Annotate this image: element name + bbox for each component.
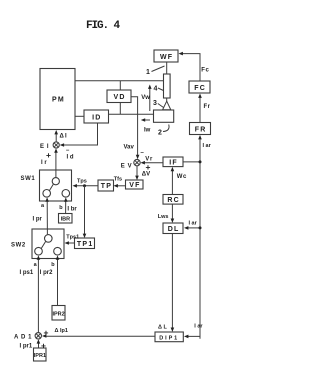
wire TP to SW1 (Tps) bbox=[73, 184, 99, 188]
svg-text:ΔV: ΔV bbox=[142, 172, 150, 178]
svg-text:DIP1: DIP1 bbox=[159, 335, 179, 341]
svg-text:I br: I br bbox=[67, 206, 77, 212]
label I ar (bottom) bbox=[194, 324, 203, 330]
svg-text:+: + bbox=[44, 328, 49, 338]
svg-text:SW1: SW1 bbox=[21, 176, 36, 182]
label delta I bbox=[60, 134, 68, 140]
label b (SW2) bbox=[51, 262, 55, 268]
wire RC to DL (Lws) bbox=[171, 204, 175, 223]
block FC bbox=[189, 81, 210, 93]
switch SW1 bbox=[40, 170, 72, 201]
wire IBR to SW1 contact b (Ibr) bbox=[64, 197, 68, 213]
wire WF to element4 bbox=[166, 62, 168, 74]
svg-text:FC: FC bbox=[194, 85, 206, 92]
svg-text:PM: PM bbox=[52, 97, 65, 104]
svg-text:Δ L: Δ L bbox=[158, 325, 167, 331]
svg-text:DL: DL bbox=[168, 226, 180, 233]
svg-text:VF: VF bbox=[129, 182, 140, 189]
pointer line 4 bbox=[158, 88, 163, 91]
title FIG. 4 bbox=[86, 20, 121, 32]
label Vw bbox=[141, 95, 150, 101]
svg-text:I pr: I pr bbox=[33, 216, 43, 222]
wire Iar bus to FR and DIP1 bbox=[184, 135, 202, 339]
block DL bbox=[163, 223, 183, 234]
svg-text:TP: TP bbox=[101, 183, 112, 190]
svg-text:I pr1: I pr1 bbox=[20, 344, 33, 350]
wire DIP1 to AD1 (delta Ip1) bbox=[42, 334, 155, 338]
label E V bbox=[121, 163, 132, 169]
label 3 bbox=[153, 100, 157, 107]
svg-text:+: + bbox=[46, 150, 51, 160]
label E I bbox=[40, 144, 49, 150]
block ID bbox=[84, 110, 109, 123]
svg-text:Δ Ip1: Δ Ip1 bbox=[55, 328, 68, 334]
element 4 (nozzle heater column) bbox=[164, 74, 171, 98]
wire EV to VF (delta V) bbox=[135, 166, 139, 180]
svg-text:FIG. 4: FIG. 4 bbox=[86, 20, 121, 32]
label 1 bbox=[146, 69, 150, 76]
svg-text:I r: I r bbox=[41, 160, 47, 166]
wire DL to DIP1 (delta L) bbox=[171, 234, 175, 332]
nozzle 3 (triangle) bbox=[163, 101, 171, 110]
wire pump stub Iw arrow bbox=[141, 118, 150, 122]
svg-text:Tps: Tps bbox=[77, 179, 87, 185]
block IPR2 bbox=[52, 306, 65, 321]
svg-text:Tfs: Tfs bbox=[114, 176, 122, 182]
label I d bbox=[67, 154, 74, 160]
label b (SW1) bbox=[59, 205, 63, 211]
label a (SW1) bbox=[41, 203, 45, 209]
wire VD to EV (Vav line) bbox=[131, 97, 139, 160]
wire VF to TP bbox=[114, 184, 126, 188]
svg-text:I ar: I ar bbox=[194, 324, 203, 330]
svg-text:A D 1: A D 1 bbox=[14, 335, 32, 341]
wire IPR1 to AD1 (Ipr1) bbox=[37, 339, 41, 348]
junction IF-bus bbox=[199, 160, 202, 163]
summing junction EV bbox=[134, 159, 140, 165]
wire element4 to nozzle bbox=[166, 98, 168, 102]
pointer line 1 bbox=[152, 66, 165, 72]
svg-text:2: 2 bbox=[158, 130, 162, 137]
label I ar (top) bbox=[203, 143, 212, 149]
svg-text:I d: I d bbox=[67, 154, 74, 160]
block IF bbox=[163, 157, 183, 167]
label Tfs bbox=[114, 176, 122, 182]
svg-text:−: − bbox=[66, 148, 70, 154]
switch SW2 bbox=[32, 229, 64, 259]
label plus (delta Ip1 input) bbox=[44, 328, 49, 338]
block VD bbox=[107, 90, 131, 103]
wire IF to EV (Vr) bbox=[141, 161, 164, 165]
svg-text:Vw: Vw bbox=[141, 95, 150, 101]
label 4 bbox=[154, 86, 158, 93]
wire TP branch to TP1 bbox=[83, 186, 87, 238]
wire FC to WF bbox=[179, 52, 201, 81]
label Tps bbox=[77, 179, 87, 185]
summing junction EI bbox=[53, 142, 59, 148]
wire IF to bus bbox=[183, 161, 200, 163]
wire Vw arrow bbox=[148, 85, 152, 112]
block 2 (pump) bbox=[154, 110, 174, 122]
junction TP branch bbox=[83, 184, 86, 187]
svg-text:1: 1 bbox=[146, 69, 150, 76]
label I r bbox=[41, 160, 47, 166]
label Vav bbox=[124, 145, 135, 151]
label a (SW2) bbox=[34, 262, 38, 268]
svg-text:IPR1: IPR1 bbox=[34, 353, 46, 359]
block IBR bbox=[59, 214, 73, 224]
label Fr bbox=[204, 104, 211, 110]
svg-text:I ar: I ar bbox=[203, 143, 212, 149]
block DIP1 bbox=[155, 332, 183, 342]
svg-text:Iw: Iw bbox=[144, 128, 151, 134]
svg-text:I ps1: I ps1 bbox=[20, 270, 34, 276]
junction DL-bus bbox=[199, 226, 202, 229]
label I pr2 bbox=[40, 270, 53, 276]
svg-text:RC: RC bbox=[167, 197, 180, 204]
svg-text:SW2: SW2 bbox=[11, 243, 26, 249]
summing junction AD1 bbox=[35, 333, 41, 339]
svg-text:3: 3 bbox=[153, 100, 157, 107]
wire VD bottom stub bbox=[119, 103, 121, 115]
svg-text:IPR2: IPR2 bbox=[52, 311, 64, 317]
label delta L bbox=[158, 325, 167, 331]
wire VD top stub bbox=[119, 81, 121, 90]
label plus (Vr input) bbox=[146, 162, 151, 172]
svg-text:E I: E I bbox=[40, 144, 49, 150]
svg-text:Δ I: Δ I bbox=[60, 134, 68, 140]
svg-text:F r: F r bbox=[204, 104, 211, 110]
pointer line 3 bbox=[158, 104, 164, 108]
label Lws bbox=[158, 214, 169, 220]
label SW1 bbox=[21, 176, 36, 182]
pointer line 2 bbox=[163, 125, 169, 132]
label A D 1 bbox=[14, 335, 32, 341]
svg-text:Lws: Lws bbox=[158, 214, 169, 220]
label minus (Id input) bbox=[66, 148, 70, 154]
svg-text:+: + bbox=[146, 162, 151, 172]
block RC bbox=[163, 195, 183, 205]
wire PM to ID bbox=[75, 115, 84, 117]
label V r bbox=[145, 156, 153, 162]
label I pr1 bbox=[20, 344, 33, 350]
label SW2 bbox=[11, 243, 26, 249]
wire ID to pump 2 bbox=[109, 113, 154, 115]
svg-text:TP1: TP1 bbox=[77, 241, 94, 248]
label delta Ip1 bbox=[55, 328, 68, 334]
wire ID to EI (Id) bbox=[60, 123, 98, 147]
svg-text:Vav: Vav bbox=[124, 145, 135, 151]
wire FR to FC (Fr) bbox=[198, 94, 202, 123]
svg-text:I ar: I ar bbox=[189, 221, 198, 227]
label Tps1 bbox=[66, 234, 79, 240]
svg-text:I pr2: I pr2 bbox=[40, 270, 53, 276]
svg-text:W c: W c bbox=[177, 174, 187, 180]
svg-text:VD: VD bbox=[114, 94, 126, 101]
label I br bbox=[67, 206, 77, 212]
block TP bbox=[98, 180, 114, 191]
label I pr bbox=[33, 216, 43, 222]
svg-text:WF: WF bbox=[160, 54, 173, 61]
wire SW2 common to SW1 contact a (Ipr) bbox=[45, 197, 49, 234]
block IPR1 bbox=[34, 348, 47, 361]
wire EI to PM (delta I) bbox=[54, 130, 58, 142]
block PM bbox=[40, 69, 75, 130]
svg-text:FR: FR bbox=[195, 126, 207, 133]
label delta V bbox=[142, 172, 150, 178]
wire TP1 to SW2 (Tps1) bbox=[65, 241, 75, 245]
svg-text:IBR: IBR bbox=[61, 217, 71, 223]
svg-text:F c: F c bbox=[201, 67, 209, 73]
svg-text:E V: E V bbox=[121, 163, 132, 169]
wire SW1 common to EI (Ir) bbox=[54, 148, 58, 177]
label Wc bbox=[177, 174, 187, 180]
svg-text:4: 4 bbox=[154, 86, 158, 93]
block TP1 bbox=[75, 238, 95, 249]
wire IPR2 to SW2 contact b (Ipr2) bbox=[56, 255, 60, 305]
svg-text:+: + bbox=[41, 341, 46, 351]
wire RC to IF bbox=[171, 167, 175, 195]
label Iw bbox=[144, 128, 151, 134]
svg-text:IF: IF bbox=[169, 160, 178, 167]
wire AD1 to SW2 contact a (Ips1) bbox=[37, 255, 41, 332]
label Fc bbox=[201, 67, 209, 73]
label plus (Ir input) bbox=[46, 150, 51, 160]
label 2 bbox=[158, 130, 162, 137]
block FR bbox=[190, 123, 211, 135]
label minus (Vav input) bbox=[140, 151, 144, 157]
block WF bbox=[154, 50, 178, 62]
svg-text:ID: ID bbox=[92, 114, 101, 121]
label plus (Ipr1 input) bbox=[41, 341, 46, 351]
wire bus to DL bbox=[184, 226, 200, 230]
svg-text:Tps1: Tps1 bbox=[66, 234, 79, 240]
wire PM to element4 (top rail) bbox=[75, 80, 164, 82]
label I ar (middle) bbox=[189, 221, 198, 227]
block VF bbox=[126, 180, 144, 189]
label I ps1 bbox=[20, 270, 34, 276]
svg-text:−: − bbox=[140, 151, 144, 157]
